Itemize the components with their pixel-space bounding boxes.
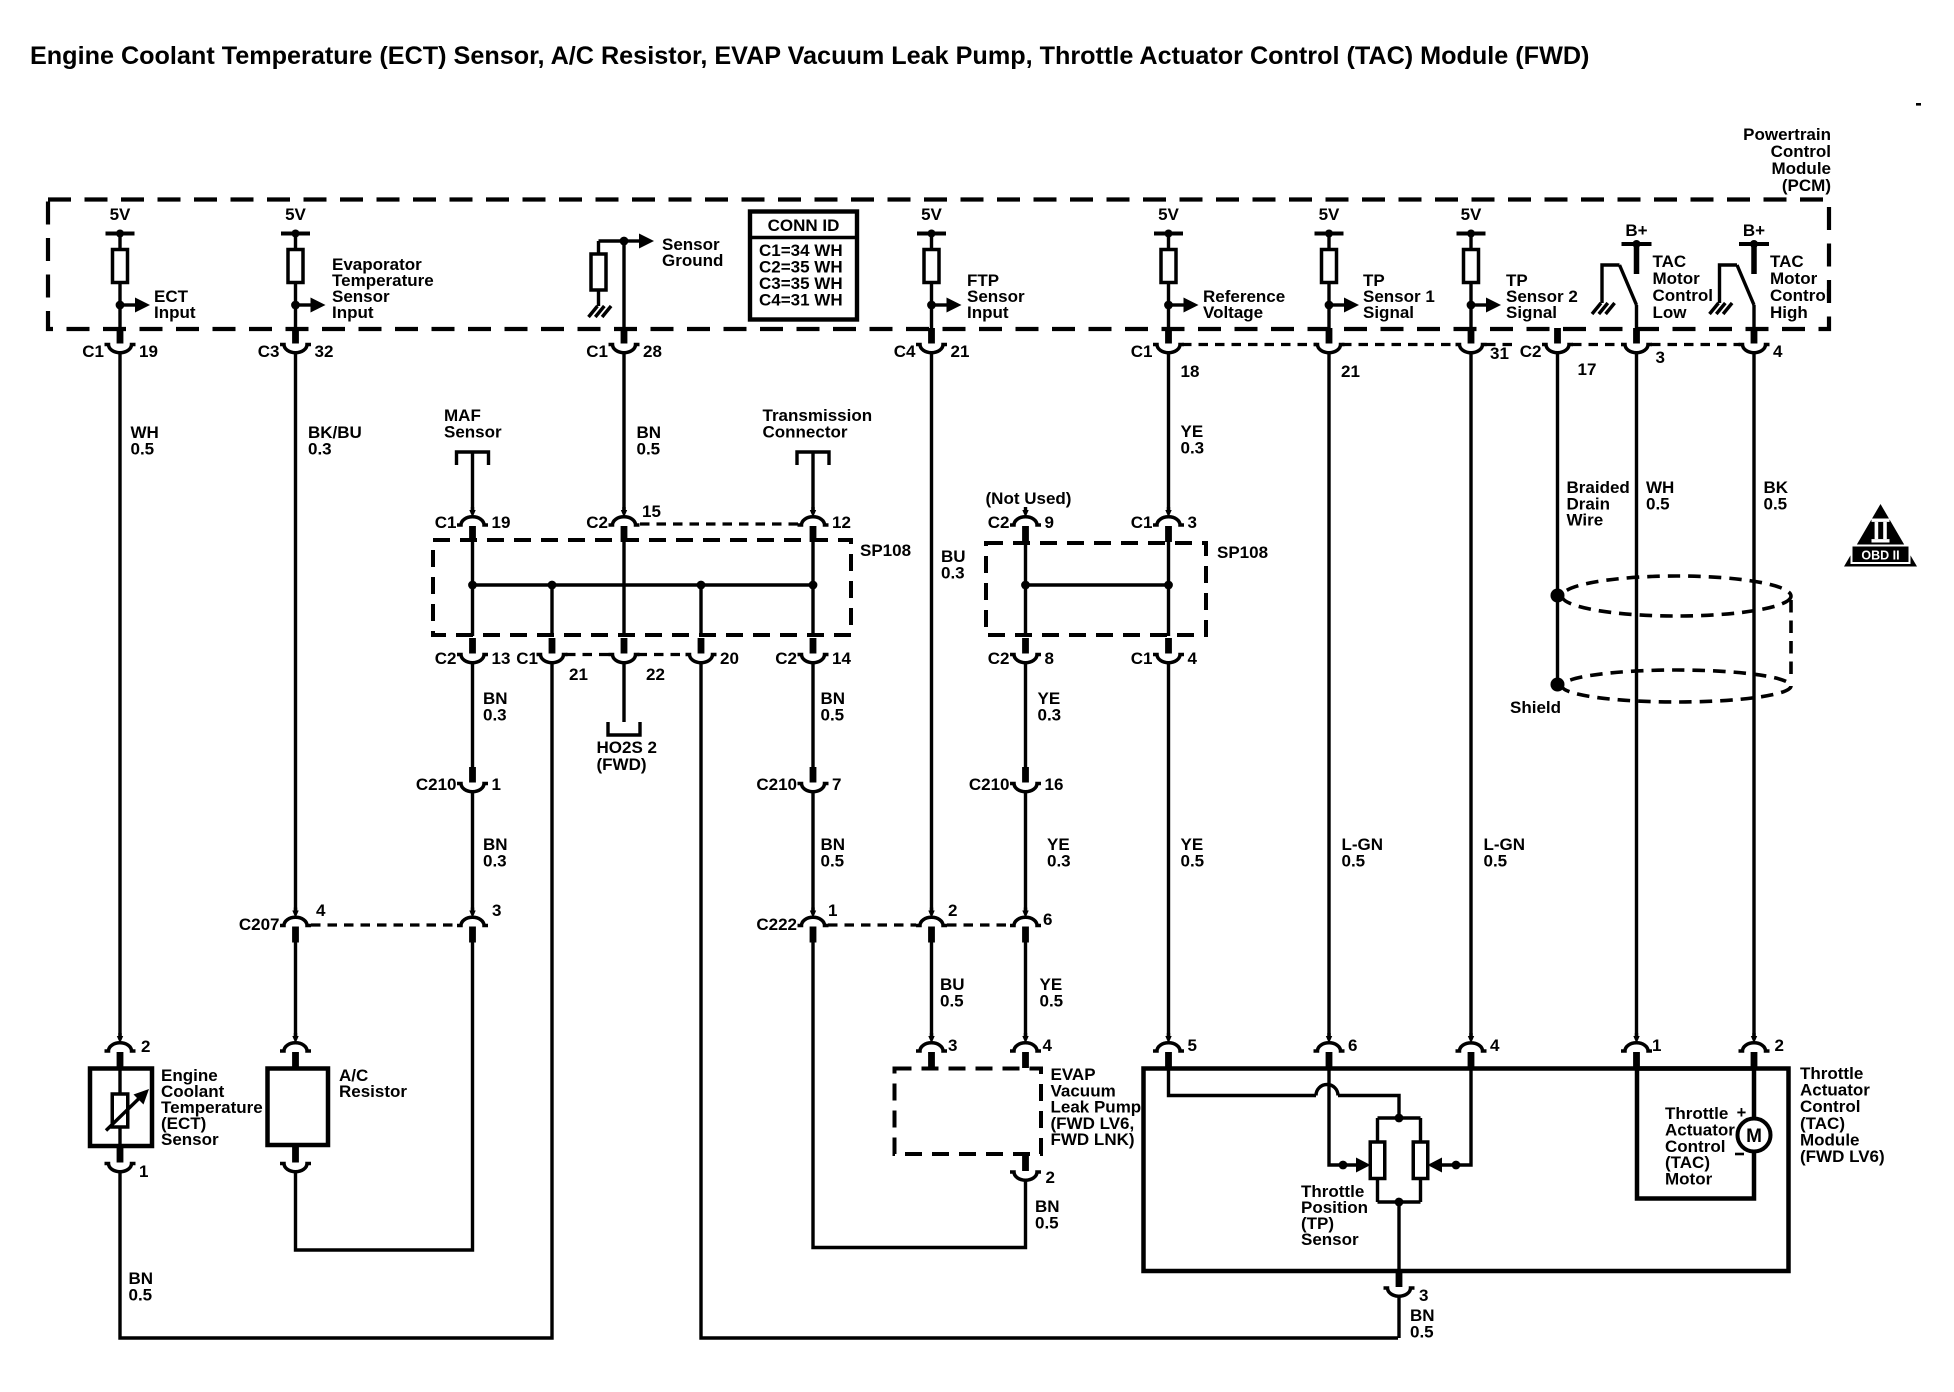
wire A/C return loop xyxy=(296,942,473,1251)
connector C222 1 xyxy=(756,901,837,943)
svg-text:20: 20 xyxy=(720,649,739,668)
splice internal wires xyxy=(471,542,474,636)
svg-text:14: 14 xyxy=(832,649,851,668)
TP sensor pin 6 xyxy=(1314,1033,1358,1068)
ECT sensor pin 2 xyxy=(105,1033,151,1068)
svg-text:BU0.3: BU0.3 xyxy=(941,547,966,583)
wire TAC low WH 0.5 xyxy=(1635,353,1638,1037)
connector 20 xyxy=(686,638,739,668)
svg-text:C210: C210 xyxy=(416,775,457,794)
svg-text:YE0.5: YE0.5 xyxy=(1181,835,1205,871)
connector pin C2 17 (PCM row) xyxy=(1520,328,1597,379)
5V supply FTP Input circuit xyxy=(917,205,1025,330)
wire C2 8 YE 0.3 xyxy=(1024,663,1027,769)
svg-text:YE0.5: YE0.5 xyxy=(1040,975,1064,1011)
connector pin C1 28 (PCM row) xyxy=(586,328,662,361)
connector C1 21 xyxy=(516,638,588,684)
svg-text:BK0.5: BK0.5 xyxy=(1764,478,1789,514)
CONN ID table xyxy=(750,212,857,320)
svg-text:C1: C1 xyxy=(1131,513,1153,532)
svg-text:3: 3 xyxy=(1656,348,1665,367)
ECT sensor pin 1 xyxy=(105,1147,149,1181)
svg-text:BU0.5: BU0.5 xyxy=(940,975,965,1011)
svg-text:1: 1 xyxy=(828,901,837,920)
svg-text:YE0.3: YE0.3 xyxy=(1047,835,1071,871)
svg-text:3: 3 xyxy=(492,901,501,920)
TAC motor box xyxy=(1637,1069,1754,1199)
svg-text:B+: B+ xyxy=(1743,221,1765,240)
connector C1 4 xyxy=(1131,638,1198,668)
svg-text:C222: C222 xyxy=(756,915,797,934)
svg-text:C2: C2 xyxy=(775,649,797,668)
5V supply TP Signal circuit xyxy=(1315,205,1435,330)
SP108 splice bus 2 xyxy=(1026,583,1169,586)
connector pin 4 (PCM row) xyxy=(1739,328,1784,361)
svg-text:6: 6 xyxy=(1348,1036,1357,1055)
EVAP pump pin 2 xyxy=(1010,1156,1055,1188)
svg-text:Engine Coolant Temperature (EC: Engine Coolant Temperature (ECT) Sensor,… xyxy=(30,42,1589,70)
wire BN 0.3 (C210 to C207) xyxy=(471,792,474,912)
SP108 splice bus 1 xyxy=(473,583,814,586)
wire BU 0.5 (C222 to pump) xyxy=(930,942,933,1038)
svg-text:C2: C2 xyxy=(1520,342,1542,361)
connector C210 16 xyxy=(969,767,1064,794)
wire BN 0.5 (C210 to C222) xyxy=(811,792,814,912)
svg-text:(Not Used): (Not Used) xyxy=(986,489,1072,508)
PCM module box xyxy=(48,200,1829,330)
wire evap BK/BU 0.3 xyxy=(294,353,297,912)
TP sensor pin 3 xyxy=(1384,1272,1429,1306)
TP sensor pin 4 xyxy=(1456,1033,1501,1068)
TP potentiometer xyxy=(1370,1114,1428,1271)
svg-text:BN0.5: BN0.5 xyxy=(1410,1306,1435,1342)
svg-text:5V: 5V xyxy=(285,205,306,224)
connector pin C3 32 (PCM row) xyxy=(258,328,334,361)
svg-text:C1: C1 xyxy=(435,513,457,532)
TAC motor pin 1 xyxy=(1621,1033,1661,1068)
svg-text:C4: C4 xyxy=(894,342,916,361)
connector body dashes C207 xyxy=(311,923,457,926)
wire YE 0.3 (C210 to C222) xyxy=(1024,792,1027,912)
svg-text:BN0.3: BN0.3 xyxy=(483,835,508,871)
svg-text:8: 8 xyxy=(1045,649,1054,668)
svg-text:C2: C2 xyxy=(988,513,1010,532)
connector C1 3 xyxy=(1131,507,1197,542)
svg-text:Shield: Shield xyxy=(1510,698,1561,717)
svg-text:4: 4 xyxy=(1490,1036,1500,1055)
EVAP pump pin 4 xyxy=(1010,1033,1053,1068)
svg-text:19: 19 xyxy=(139,342,158,361)
svg-text:BN0.5: BN0.5 xyxy=(1035,1197,1060,1233)
svg-text:15: 15 xyxy=(642,502,661,521)
TAC motor pin 2 xyxy=(1739,1033,1784,1068)
transmission connector pigtail xyxy=(763,406,873,511)
wire ECT return loop BN 0.5 xyxy=(120,663,552,1339)
connector pin 31 (PCM row) xyxy=(1456,328,1509,363)
sensor ground circuit xyxy=(589,234,724,330)
connector C2 14 xyxy=(775,638,851,668)
connector pin 3 (PCM row) xyxy=(1621,328,1665,367)
wire TP sensor 1 xyxy=(1327,353,1330,1037)
svg-text:C1: C1 xyxy=(1131,649,1153,668)
connector C222 6 xyxy=(1010,908,1052,943)
connector C2 9 (not used) xyxy=(986,489,1072,542)
TP sensor pin 5 xyxy=(1153,1033,1197,1068)
svg-text:B+: B+ xyxy=(1625,221,1647,240)
svg-text:C1: C1 xyxy=(586,342,608,361)
svg-text:2: 2 xyxy=(1046,1168,1055,1187)
OBD II symbol xyxy=(1844,504,1917,567)
B+ TAC driver Low xyxy=(1592,221,1713,330)
ECT sensor box xyxy=(90,1069,152,1147)
connector C207 3 xyxy=(457,901,501,943)
svg-text:YE0.3: YE0.3 xyxy=(1038,689,1062,725)
EVAP pump box xyxy=(895,1069,1042,1155)
connector C2 8 xyxy=(988,638,1054,668)
drain wire junction dots xyxy=(1551,589,1565,603)
connector pin 21 (PCM row) xyxy=(1314,328,1360,381)
svg-text:OBD II: OBD II xyxy=(1861,549,1899,563)
wire reference voltage YE 0.3 xyxy=(1167,353,1170,511)
connector C207 4 xyxy=(239,901,326,943)
5V supply Reference Voltage circuit xyxy=(1154,205,1285,330)
svg-text:C1=34 WHC2=35 WHC3=35 WHC4=31: C1=34 WHC2=35 WHC3=35 WHC4=31 WH xyxy=(759,241,843,310)
svg-text:5V: 5V xyxy=(1461,205,1482,224)
stray mark top right xyxy=(1916,103,1921,106)
svg-text:SensorGround: SensorGround xyxy=(662,235,723,270)
svg-text:C210: C210 xyxy=(756,775,797,794)
EVAP pump pin 3 xyxy=(916,1033,957,1068)
connector C210 1 xyxy=(416,767,501,794)
svg-text:21: 21 xyxy=(1341,362,1360,381)
svg-text:5V: 5V xyxy=(110,205,131,224)
svg-text:4: 4 xyxy=(1043,1036,1053,1055)
svg-text:CONN ID: CONN ID xyxy=(768,216,840,235)
svg-text:BN0.5: BN0.5 xyxy=(129,1269,154,1305)
svg-text:M: M xyxy=(1746,1126,1762,1147)
TP wiper pin 4 xyxy=(1428,1069,1472,1173)
wire HO2S BN 0.5 xyxy=(622,663,625,723)
5V supply ECT Input circuit xyxy=(106,205,196,330)
svg-text:6: 6 xyxy=(1043,910,1052,929)
MAF sensor pigtail xyxy=(444,406,502,511)
svg-text:5V: 5V xyxy=(1319,205,1340,224)
splice pack SP108 box 1 xyxy=(433,540,851,635)
splice pack SP108 box 2 xyxy=(986,543,1206,635)
svg-text:SP108: SP108 xyxy=(860,541,911,560)
connector pin C1 19 (PCM row) xyxy=(82,328,158,361)
A/C resistor pin top xyxy=(280,1033,311,1068)
svg-text:2: 2 xyxy=(141,1037,150,1056)
svg-text:5: 5 xyxy=(1188,1036,1197,1055)
connector C1 19 (MAF) xyxy=(435,507,511,542)
svg-text:C210: C210 xyxy=(969,775,1010,794)
svg-text:2: 2 xyxy=(1775,1036,1784,1055)
wire TP pin 3 BN 0.5 xyxy=(1397,1297,1400,1339)
svg-text:31: 31 xyxy=(1490,344,1509,363)
wire evap to A/C resistor xyxy=(294,942,297,1038)
svg-text:28: 28 xyxy=(643,342,662,361)
shield dashed cylinder xyxy=(1562,576,1791,702)
svg-text:3: 3 xyxy=(948,1036,957,1055)
svg-text:4: 4 xyxy=(316,901,326,920)
svg-text:YE0.3: YE0.3 xyxy=(1181,422,1205,458)
connector C210 7 xyxy=(756,767,841,794)
svg-text:C2: C2 xyxy=(435,649,457,668)
svg-text:C2: C2 xyxy=(586,513,608,532)
TAC motor M circle xyxy=(1735,1104,1771,1154)
svg-text:+: + xyxy=(1737,1104,1747,1122)
wire C1 4 YE 0.5 xyxy=(1167,663,1170,1038)
wire pump return BN 0.5 xyxy=(813,942,1026,1248)
svg-text:3: 3 xyxy=(1188,513,1197,532)
svg-text:7: 7 xyxy=(832,775,841,794)
wire BN 0.3 (MAF splice to C210) xyxy=(471,663,474,769)
wire pin20 to bottom xyxy=(701,663,1398,1339)
svg-text:BN0.3: BN0.3 xyxy=(483,689,508,725)
svg-text:C3: C3 xyxy=(258,342,280,361)
connector body dashes C2 15-12 xyxy=(640,522,800,525)
wire FTP BU 0.3 xyxy=(930,353,933,912)
A/C resistor pin bottom xyxy=(280,1147,311,1172)
svg-text:4: 4 xyxy=(1188,649,1198,668)
svg-text:C1: C1 xyxy=(82,342,104,361)
connector pin C1 18 (PCM row) xyxy=(1131,328,1200,381)
svg-text:21: 21 xyxy=(951,342,970,361)
svg-text:C1: C1 xyxy=(1131,342,1153,361)
svg-text:9: 9 xyxy=(1045,513,1054,532)
connector C222 2 xyxy=(916,901,957,943)
5V supply Evaporator Input circuit xyxy=(281,205,434,330)
svg-text:5V: 5V xyxy=(921,205,942,224)
wire sensor ground BN 0.5 xyxy=(622,353,625,511)
wire braided drain xyxy=(1556,353,1559,685)
svg-text:1: 1 xyxy=(139,1162,148,1181)
svg-text:1: 1 xyxy=(1652,1036,1661,1055)
svg-text:22: 22 xyxy=(646,665,665,684)
TP sensor wiring (pin 5 with hop) xyxy=(1169,1069,1400,1119)
svg-text:13: 13 xyxy=(492,649,511,668)
svg-text:C2: C2 xyxy=(988,649,1010,668)
svg-text:19: 19 xyxy=(492,513,511,532)
wire YE 0.5 (C222 to pump) xyxy=(1024,942,1027,1038)
TP wiper pin 6 xyxy=(1329,1069,1371,1173)
wire ECT feed WH 0.5 xyxy=(118,353,121,1037)
svg-text:3: 3 xyxy=(1419,1286,1428,1305)
svg-text:ThrottlePosition(TP)Sensor: ThrottlePosition(TP)Sensor xyxy=(1301,1182,1368,1249)
A/C resistor box xyxy=(268,1069,329,1146)
HO2S 2 pigtail xyxy=(597,722,657,774)
svg-text:17: 17 xyxy=(1578,360,1597,379)
svg-text:BN0.5: BN0.5 xyxy=(821,835,846,871)
svg-text:C207: C207 xyxy=(239,915,280,934)
connector pin C4 21 (PCM row) xyxy=(894,328,970,361)
svg-text:16: 16 xyxy=(1045,775,1064,794)
svg-text:21: 21 xyxy=(569,665,588,684)
svg-text:BN0.5: BN0.5 xyxy=(637,423,662,459)
svg-text:1: 1 xyxy=(492,775,501,794)
svg-text:2: 2 xyxy=(948,901,957,920)
connector 12 (transmission) xyxy=(798,507,851,542)
svg-text:BN0.5: BN0.5 xyxy=(821,689,846,725)
wire C2 14 BN 0.5 xyxy=(811,663,814,769)
TAC module box xyxy=(1144,1069,1789,1272)
connector body dashes C1/C2 (PCM row) xyxy=(1182,343,1317,346)
svg-text:18: 18 xyxy=(1181,362,1200,381)
connector 22 xyxy=(609,638,665,684)
5V supply TP Signal circuit xyxy=(1457,205,1578,330)
wire TP sensor 2 xyxy=(1469,353,1472,1037)
B+ TAC driver High xyxy=(1710,221,1831,330)
connector C2 13 xyxy=(435,638,511,668)
wire TAC high BK 0.5 xyxy=(1752,353,1755,1037)
svg-text:SP108: SP108 xyxy=(1217,543,1268,562)
svg-text:32: 32 xyxy=(315,342,334,361)
connector body dashes C222 xyxy=(828,923,916,926)
svg-text:12: 12 xyxy=(832,513,851,532)
svg-text:C1: C1 xyxy=(516,649,538,668)
connector C2 15 xyxy=(586,502,661,542)
connector body dashes C1 21-22-20 xyxy=(566,653,610,656)
svg-text:5V: 5V xyxy=(1158,205,1179,224)
svg-text:4: 4 xyxy=(1773,342,1783,361)
